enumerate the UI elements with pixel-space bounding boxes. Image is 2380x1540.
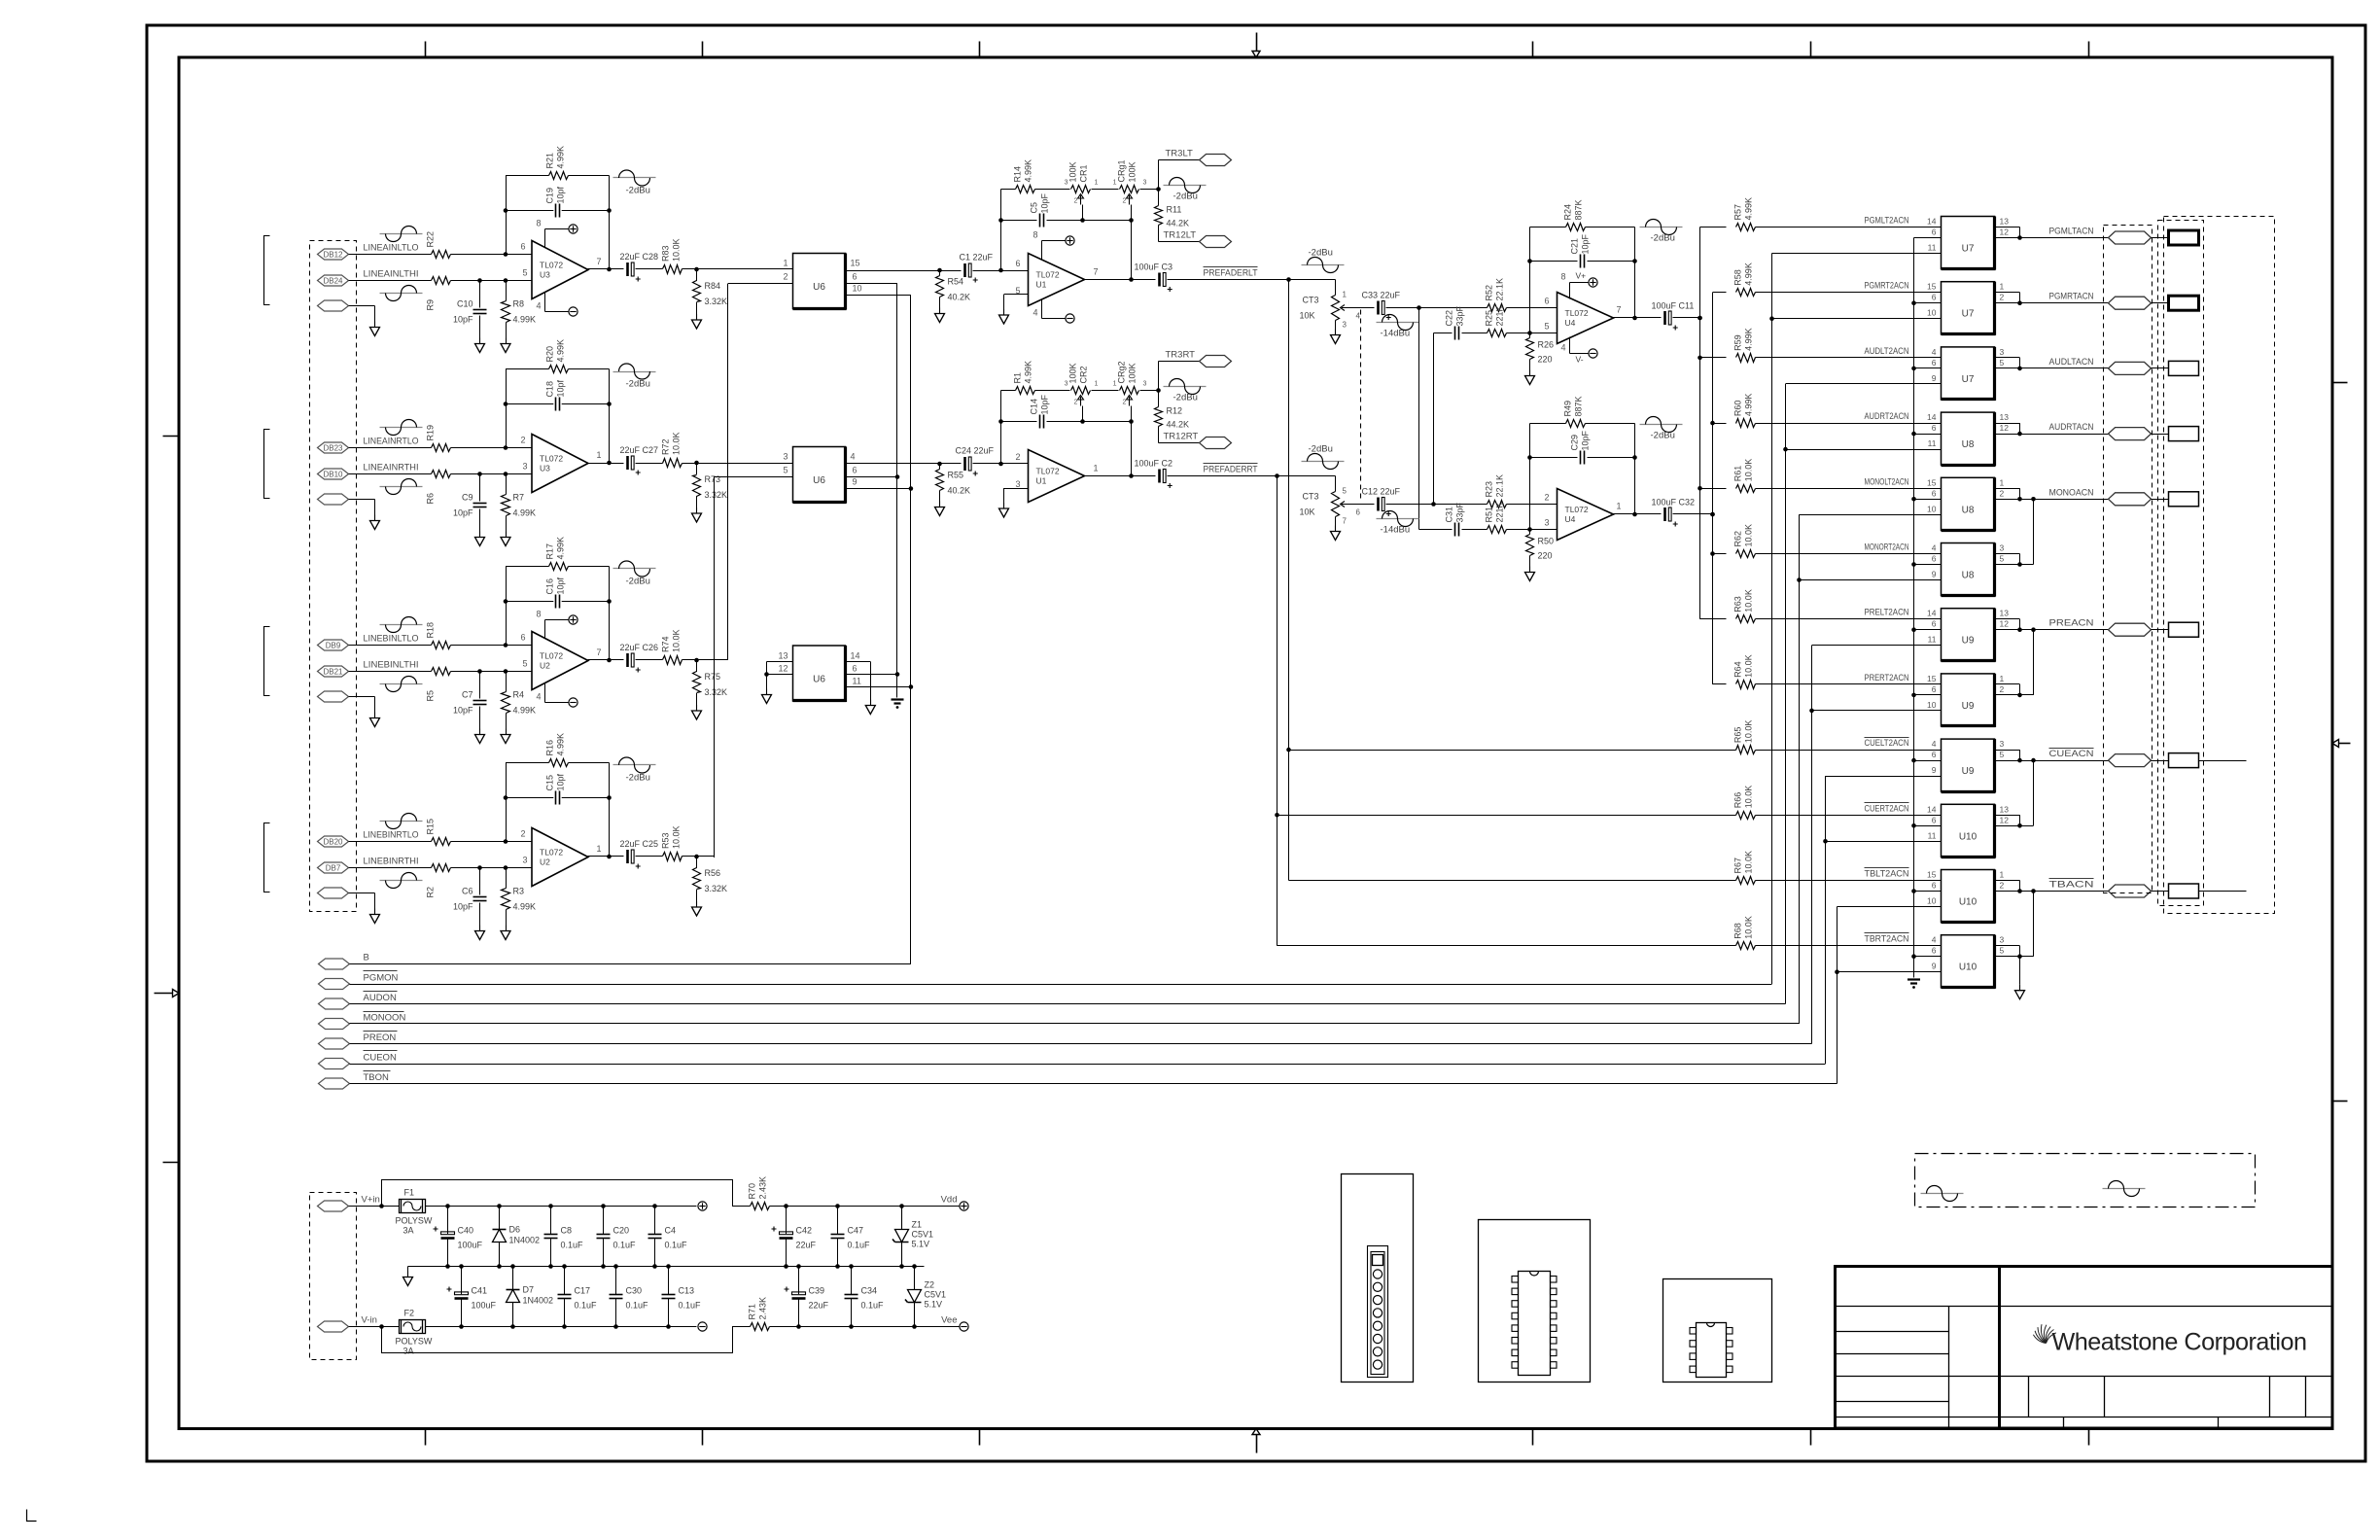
wire feedback bbox=[506, 369, 507, 448]
resistor R3 4.99K bbox=[506, 868, 507, 889]
B bus vertical (pin 6 chain) bbox=[1913, 238, 1915, 978]
resistor R24 887K bbox=[1566, 224, 1586, 231]
svg-text:3: 3 bbox=[1015, 479, 1020, 489]
svg-text:D7: D7 bbox=[523, 1285, 535, 1295]
border tick bottom bbox=[1532, 1429, 1534, 1446]
wire pin6 (B bus) bbox=[1914, 825, 1942, 827]
wire output CUEACN bbox=[2020, 760, 2109, 762]
wire from mix bus bbox=[1700, 357, 1727, 359]
svg-text:4.99K: 4.99K bbox=[1024, 159, 1033, 183]
DIP8 body bbox=[1697, 1323, 1727, 1378]
svg-text:13: 13 bbox=[2000, 217, 2010, 227]
wire feedback bbox=[506, 763, 507, 842]
capacitor C26 22uF bbox=[626, 653, 629, 667]
svg-text:10.0K: 10.0K bbox=[1744, 786, 1754, 809]
wire bbox=[636, 659, 663, 661]
svg-text:R18: R18 bbox=[426, 622, 436, 639]
svg-text:-14dBu: -14dBu bbox=[1381, 525, 1411, 536]
svg-text:4: 4 bbox=[536, 692, 541, 702]
test point -2dBu bbox=[613, 764, 656, 766]
capacitor C16 10pf bbox=[506, 601, 553, 603]
svg-text:R67: R67 bbox=[1733, 857, 1743, 874]
svg-text:R68: R68 bbox=[1733, 923, 1743, 939]
svg-text:1: 1 bbox=[2000, 282, 2005, 292]
svg-text:D6: D6 bbox=[509, 1225, 521, 1235]
output header dashed box bbox=[2158, 221, 2204, 906]
svg-text:13: 13 bbox=[2000, 804, 2010, 814]
enable bus CUEON vertical bbox=[1825, 776, 1827, 1064]
resistor R26 220 bbox=[1529, 333, 1531, 338]
wire to switch bbox=[1756, 357, 1942, 359]
svg-text:22.1K: 22.1K bbox=[1495, 278, 1505, 301]
wire to mix bus RT bbox=[1673, 513, 1713, 515]
switch block U7 bbox=[1942, 347, 1995, 400]
DIP16 pin right bbox=[1551, 1288, 1557, 1295]
wire join to output above bbox=[2020, 825, 2034, 827]
wire output join bbox=[1995, 227, 2020, 228]
svg-text:3: 3 bbox=[1065, 381, 1068, 388]
wire pin10 B bus bbox=[846, 295, 911, 297]
note sine symbol bbox=[2103, 1188, 2146, 1190]
wire stub bbox=[2199, 760, 2247, 762]
svg-text:3.32K: 3.32K bbox=[705, 297, 728, 306]
svg-text:6: 6 bbox=[1932, 750, 1937, 759]
svg-text:R70: R70 bbox=[748, 1183, 757, 1200]
svg-text:TR12LT: TR12LT bbox=[1164, 230, 1197, 241]
resistor R67 10.0K bbox=[1736, 877, 1756, 885]
resistor R64 10.0K bbox=[1736, 681, 1756, 689]
svg-text:9: 9 bbox=[1932, 765, 1937, 775]
svg-text:C10: C10 bbox=[457, 299, 473, 309]
capacitor C13 0.1uF bbox=[668, 1267, 670, 1295]
svg-text:C16: C16 bbox=[545, 578, 555, 595]
svg-text:1: 1 bbox=[2000, 477, 2005, 487]
wire enable pin bbox=[1800, 579, 1942, 581]
wire pin6 (B bus) bbox=[1914, 302, 1942, 304]
svg-text:6: 6 bbox=[1932, 881, 1937, 891]
wire LINEBINLTLO bbox=[349, 645, 432, 647]
pin 8 V+ bbox=[1041, 241, 1043, 261]
DIP16 pin right bbox=[1551, 1325, 1557, 1332]
svg-text:PGMRTACN: PGMRTACN bbox=[2049, 292, 2094, 302]
svg-text:40.2K: 40.2K bbox=[948, 486, 971, 496]
wire to switch bbox=[1756, 618, 1942, 620]
wire enable pin bbox=[1826, 841, 1942, 843]
wire V+ bypass bbox=[382, 1180, 751, 1207]
V+ supply bbox=[1066, 236, 1074, 245]
flag TR3LT bbox=[1200, 155, 1232, 166]
svg-text:3: 3 bbox=[1343, 321, 1347, 330]
svg-text:1: 1 bbox=[1094, 464, 1099, 473]
net TBACN bbox=[2049, 878, 2094, 880]
svg-text:Z1: Z1 bbox=[912, 1220, 923, 1230]
svg-text:V-in: V-in bbox=[362, 1315, 377, 1326]
wire LINEAINLTLO bbox=[349, 254, 432, 256]
svg-text:U6: U6 bbox=[813, 675, 825, 685]
svg-text:TBON: TBON bbox=[364, 1072, 390, 1083]
svg-text:CUELT2ACN: CUELT2ACN bbox=[1865, 738, 1909, 748]
wire cross RT to LT stage bbox=[1433, 333, 1435, 505]
wire TBRT tap bbox=[1277, 945, 1736, 947]
svg-text:6: 6 bbox=[1932, 358, 1937, 367]
V- raw terminal bbox=[698, 1322, 707, 1331]
svg-text:C40: C40 bbox=[458, 1226, 474, 1236]
border tick top bbox=[1810, 42, 1812, 58]
svg-text:3A: 3A bbox=[403, 1347, 414, 1356]
svg-text:2: 2 bbox=[520, 829, 525, 839]
header pin circle bbox=[1373, 1360, 1382, 1369]
wire output bbox=[588, 856, 624, 857]
wire from mix bus bbox=[1700, 488, 1727, 490]
svg-text:10K: 10K bbox=[1299, 311, 1314, 321]
svg-text:R17: R17 bbox=[545, 543, 555, 560]
connector flag CUEACN bbox=[2109, 754, 2152, 767]
V- supply bbox=[1066, 314, 1074, 323]
svg-text:2: 2 bbox=[1544, 493, 1549, 503]
DIP16 pin left bbox=[1512, 1301, 1519, 1308]
corner mark bottom-left bbox=[27, 1510, 37, 1522]
capacitor C18 10pf bbox=[506, 403, 553, 405]
wire output PGMRTACN bbox=[2020, 302, 2109, 304]
wire to summing bus bbox=[682, 659, 729, 661]
svg-text:R75: R75 bbox=[705, 672, 721, 682]
connector pin MONOON bbox=[319, 1019, 350, 1030]
svg-text:11: 11 bbox=[1928, 635, 1937, 645]
svg-text:V+: V+ bbox=[1576, 271, 1587, 281]
connector pin DB24 bbox=[318, 275, 349, 286]
svg-text:44.2K: 44.2K bbox=[1167, 420, 1190, 430]
svg-text:R1: R1 bbox=[1013, 372, 1023, 384]
svg-text:R8: R8 bbox=[513, 299, 525, 309]
net AUDON bbox=[364, 991, 398, 993]
svg-text:7: 7 bbox=[597, 647, 602, 657]
wire output bbox=[1083, 279, 1156, 281]
svg-text:2: 2 bbox=[520, 436, 525, 445]
svg-text:0.1uF: 0.1uF bbox=[561, 1241, 584, 1250]
wire output join bbox=[1995, 553, 2020, 555]
capacitor C22 33pF bbox=[1434, 332, 1452, 334]
svg-text:U2: U2 bbox=[540, 661, 550, 671]
wire enable pin bbox=[1786, 449, 1942, 451]
ground bbox=[696, 507, 698, 513]
ground bbox=[1335, 526, 1337, 532]
svg-text:CRg1: CRg1 bbox=[1117, 159, 1127, 182]
svg-text:10pF: 10pF bbox=[453, 315, 473, 325]
svg-text:V-: V- bbox=[1576, 355, 1584, 365]
test point sine lower bbox=[380, 293, 423, 295]
connector pin DB12 bbox=[318, 249, 349, 260]
wire to U4 pin3 bbox=[1507, 529, 1557, 531]
svg-text:8: 8 bbox=[1560, 272, 1565, 282]
svg-text:3: 3 bbox=[1143, 180, 1147, 187]
svg-text:DB20: DB20 bbox=[323, 837, 343, 846]
border arrow bottom bbox=[1256, 1435, 1258, 1453]
resistor R5 bbox=[432, 668, 451, 676]
svg-text:4.99K: 4.99K bbox=[513, 706, 537, 716]
resistor R21 4.99K bbox=[549, 172, 569, 180]
DIP16 pin left bbox=[1512, 1288, 1519, 1295]
capacitor C8 0.1uF bbox=[550, 1207, 552, 1235]
connector pin PGMON bbox=[319, 979, 350, 990]
svg-text:C41: C41 bbox=[472, 1286, 488, 1296]
pin 4 V- bbox=[544, 293, 546, 312]
svg-text:10: 10 bbox=[853, 284, 862, 294]
svg-text:C19: C19 bbox=[545, 188, 555, 204]
resistor R6 bbox=[432, 471, 451, 478]
wire PREON bbox=[350, 1043, 1812, 1045]
wire PREFADERRT bbox=[1168, 475, 1336, 477]
svg-text:33pF: 33pF bbox=[1455, 305, 1465, 326]
connector pin DB23 bbox=[318, 442, 349, 453]
DIP8 pin left bbox=[1690, 1328, 1697, 1335]
Vee terminal bbox=[960, 1322, 968, 1331]
flag TR3RT bbox=[1200, 356, 1232, 367]
wire bbox=[2152, 237, 2169, 239]
wire join to output above bbox=[2020, 956, 2034, 958]
DIP16 pin right bbox=[1551, 1338, 1557, 1345]
resistor R49 887K bbox=[1566, 420, 1586, 428]
svg-text:3: 3 bbox=[1143, 381, 1147, 388]
resistor R59 4.99K bbox=[1736, 354, 1756, 363]
svg-text:U3: U3 bbox=[540, 464, 550, 473]
svg-text:TL072: TL072 bbox=[1036, 270, 1060, 280]
resistor R53 10.0K bbox=[663, 853, 682, 861]
wire bbox=[2152, 367, 2169, 369]
svg-text:14: 14 bbox=[1927, 412, 1937, 422]
svg-text:9: 9 bbox=[1932, 962, 1937, 971]
svg-text:10K: 10K bbox=[1299, 507, 1314, 517]
wire LINEBINRTHI bbox=[349, 867, 432, 869]
border arrow right bbox=[2339, 743, 2351, 745]
svg-text:R3: R3 bbox=[513, 887, 525, 896]
svg-text:1N4002: 1N4002 bbox=[523, 1296, 554, 1306]
DIP16 pin left bbox=[1512, 1338, 1519, 1345]
svg-text:R83: R83 bbox=[661, 245, 671, 262]
connector flag AUDLTACN bbox=[2109, 362, 2152, 374]
wire pin6 (B bus) bbox=[1914, 694, 1942, 696]
svg-text:PREON: PREON bbox=[364, 1032, 397, 1043]
capacitor C40 100uF bbox=[447, 1207, 449, 1235]
DIP16 pin right bbox=[1551, 1362, 1557, 1369]
connector flag TBACN bbox=[2109, 885, 2152, 897]
resistor R74 10.0K bbox=[663, 656, 682, 665]
wire wiper 1 bbox=[1082, 406, 1084, 422]
wire bbox=[2152, 302, 2169, 304]
wire output join bbox=[1995, 750, 2020, 752]
svg-text:6: 6 bbox=[520, 242, 525, 252]
connector flag PGMRTACN bbox=[2109, 297, 2152, 309]
svg-text:R57: R57 bbox=[1733, 204, 1743, 221]
svg-text:4: 4 bbox=[1032, 308, 1037, 318]
capacitor C29 10pF bbox=[1530, 457, 1578, 459]
DIP8 pin left bbox=[1690, 1341, 1697, 1347]
svg-text:DB21: DB21 bbox=[323, 667, 343, 676]
svg-text:5: 5 bbox=[2000, 358, 2005, 367]
wire to switch bbox=[1756, 880, 1942, 882]
svg-text:C22: C22 bbox=[1445, 310, 1454, 327]
ground bbox=[1003, 309, 1005, 315]
svg-text:TBRT2ACN: TBRT2ACN bbox=[1865, 934, 1909, 944]
resistor R22 bbox=[432, 251, 451, 259]
svg-text:100uF C11: 100uF C11 bbox=[1652, 301, 1695, 311]
svg-text:MONOACN: MONOACN bbox=[2049, 487, 2094, 498]
svg-text:1: 1 bbox=[1095, 180, 1099, 187]
svg-text:22uF: 22uF bbox=[796, 1241, 817, 1250]
svg-text:100uF C2: 100uF C2 bbox=[1135, 459, 1173, 469]
svg-text:2: 2 bbox=[1015, 452, 1020, 462]
svg-text:C31: C31 bbox=[1445, 507, 1454, 523]
svg-text:TR3RT: TR3RT bbox=[1166, 350, 1196, 361]
switch block U8 bbox=[1942, 412, 1995, 465]
svg-text:R5: R5 bbox=[426, 690, 436, 702]
border tick left lower bbox=[163, 1162, 180, 1164]
svg-text:U1: U1 bbox=[1036, 280, 1047, 290]
svg-text:5: 5 bbox=[2000, 554, 2005, 564]
svg-text:4: 4 bbox=[536, 301, 541, 311]
svg-text:5: 5 bbox=[1343, 487, 1347, 496]
svg-text:R23: R23 bbox=[1485, 481, 1494, 498]
wire enable pin bbox=[1826, 776, 1942, 778]
svg-text:C34: C34 bbox=[861, 1286, 878, 1296]
svg-text:U2: U2 bbox=[540, 857, 550, 867]
ground bbox=[479, 926, 481, 931]
wire CUELT tap bbox=[1289, 750, 1736, 752]
svg-text:10pf: 10pf bbox=[556, 577, 566, 594]
svg-text:1: 1 bbox=[2000, 674, 2005, 683]
wire wiper 1 bbox=[1082, 205, 1084, 221]
resistor R18 bbox=[432, 642, 451, 649]
wire output join bbox=[1995, 423, 2020, 425]
wire join to output above bbox=[2020, 564, 2034, 566]
ground bbox=[479, 338, 481, 344]
wire V- bypass bbox=[382, 1327, 751, 1353]
fuse F1 POLYSW 3A bbox=[400, 1200, 426, 1213]
svg-text:10.0K: 10.0K bbox=[1744, 916, 1754, 939]
capacitor C3 100uF bbox=[1158, 273, 1161, 287]
ground bbox=[506, 532, 507, 538]
svg-text:11: 11 bbox=[1928, 438, 1937, 448]
svg-text:CRg2: CRg2 bbox=[1117, 361, 1127, 383]
svg-text:10.0K: 10.0K bbox=[1744, 654, 1754, 678]
wire wiper 2 bbox=[1131, 205, 1133, 221]
prefader RT tap vertical bbox=[1277, 476, 1278, 946]
wire pin stub to ground bbox=[1004, 488, 1029, 490]
svg-text:U8: U8 bbox=[1962, 571, 1975, 581]
wire AUDON bbox=[350, 1003, 1786, 1005]
svg-text:13: 13 bbox=[2000, 412, 2010, 422]
wire from mix bus bbox=[1713, 553, 1727, 555]
svg-text:1: 1 bbox=[597, 844, 602, 854]
capacitor C4 0.1uF bbox=[654, 1207, 656, 1235]
resistor R62 10.0K bbox=[1736, 550, 1756, 558]
resistor R9 bbox=[432, 277, 451, 285]
wire LINEAINRTHI bbox=[349, 473, 432, 475]
svg-text:2: 2 bbox=[2000, 488, 2005, 498]
resistor R20 4.99K bbox=[549, 366, 569, 373]
pin 8 V+ bbox=[544, 620, 546, 639]
svg-text:10: 10 bbox=[1927, 700, 1937, 710]
svg-text:4.99K: 4.99K bbox=[1744, 262, 1754, 286]
svg-text:LINEBINLTHI: LINEBINLTHI bbox=[364, 660, 419, 671]
svg-text:0.1uF: 0.1uF bbox=[848, 1241, 871, 1250]
test point -2dBu bbox=[1164, 386, 1207, 388]
ground bbox=[2019, 985, 2021, 991]
svg-text:3: 3 bbox=[2000, 543, 2005, 553]
svg-text:R20: R20 bbox=[545, 346, 555, 363]
ground bbox=[1003, 503, 1005, 508]
svg-text:LINEBINRTHI: LINEBINRTHI bbox=[364, 857, 419, 867]
resistor R51 221K bbox=[1462, 529, 1487, 531]
wire to trim flag bbox=[1158, 362, 1160, 391]
resistor R16 4.99K bbox=[549, 759, 569, 767]
wire pin5 from LINEB RT bbox=[714, 476, 792, 478]
svg-text:0.1uF: 0.1uF bbox=[626, 1301, 649, 1311]
svg-text:LINEBINLTLO: LINEBINLTLO bbox=[364, 634, 419, 645]
svg-text:TR12RT: TR12RT bbox=[1164, 432, 1199, 442]
svg-text:6: 6 bbox=[520, 633, 525, 643]
wire feedback bbox=[1529, 424, 1531, 530]
wire wiper RT bbox=[1344, 504, 1375, 506]
capacitor C24 22uF bbox=[963, 457, 966, 471]
power connector dashed box bbox=[310, 1193, 357, 1360]
connector body bbox=[2169, 427, 2199, 441]
resistor R58 4.99K bbox=[1736, 289, 1756, 297]
connector pin spare bbox=[318, 494, 349, 505]
net CUERT2ACN bbox=[1865, 802, 1909, 804]
test point -2dBu bbox=[613, 371, 656, 373]
resistor R61 10.0K bbox=[1736, 485, 1756, 493]
svg-text:4.99K: 4.99K bbox=[556, 146, 566, 169]
pin 4 V- bbox=[1041, 299, 1043, 319]
revision table lines bbox=[1836, 1306, 2000, 1308]
resistor R66 10.0K bbox=[1736, 812, 1756, 820]
svg-text:CUEACN: CUEACN bbox=[2049, 749, 2094, 759]
header pin circle bbox=[1373, 1347, 1382, 1356]
capacitor C14 10pF bbox=[1039, 415, 1041, 429]
DIP16 outline drawing bbox=[1479, 1220, 1591, 1382]
resistor R63 10.0K bbox=[1736, 615, 1756, 623]
wire output join bbox=[1995, 618, 2020, 620]
svg-text:220: 220 bbox=[1538, 551, 1553, 561]
V+ supply bbox=[1589, 278, 1597, 287]
svg-text:C8: C8 bbox=[561, 1226, 573, 1236]
connector pin V+in bbox=[318, 1201, 349, 1211]
svg-text:100K: 100K bbox=[1128, 161, 1137, 182]
svg-text:LINEAINRTLO: LINEAINRTLO bbox=[364, 437, 419, 447]
resistor R72 10.0K bbox=[663, 459, 682, 468]
resistor R73 3.32K bbox=[696, 463, 698, 474]
output connector dashed box bbox=[2104, 226, 2152, 893]
svg-text:1: 1 bbox=[1095, 381, 1099, 388]
V- supply bbox=[1589, 349, 1597, 358]
svg-text:14: 14 bbox=[851, 651, 860, 661]
svg-text:R63: R63 bbox=[1733, 596, 1743, 612]
capacitor C17 0.1uF bbox=[564, 1267, 566, 1295]
connector body bbox=[2169, 622, 2199, 637]
Wheatstone Corporation logo bbox=[2033, 1324, 2055, 1343]
capacitor C39 22uF bbox=[798, 1267, 800, 1295]
op-amp U3 TL072 bbox=[532, 435, 588, 493]
test point -2dBu bbox=[1640, 227, 1683, 228]
Vdd terminal bbox=[960, 1202, 968, 1210]
svg-text:C4: C4 bbox=[665, 1226, 677, 1236]
svg-text:2: 2 bbox=[2000, 293, 2005, 302]
svg-text:C7: C7 bbox=[462, 690, 473, 700]
test point -14dBu bbox=[1377, 322, 1419, 324]
svg-text:V+in: V+in bbox=[362, 1195, 380, 1206]
svg-text:R6: R6 bbox=[426, 493, 436, 505]
connector flag PREACN bbox=[2109, 623, 2152, 636]
